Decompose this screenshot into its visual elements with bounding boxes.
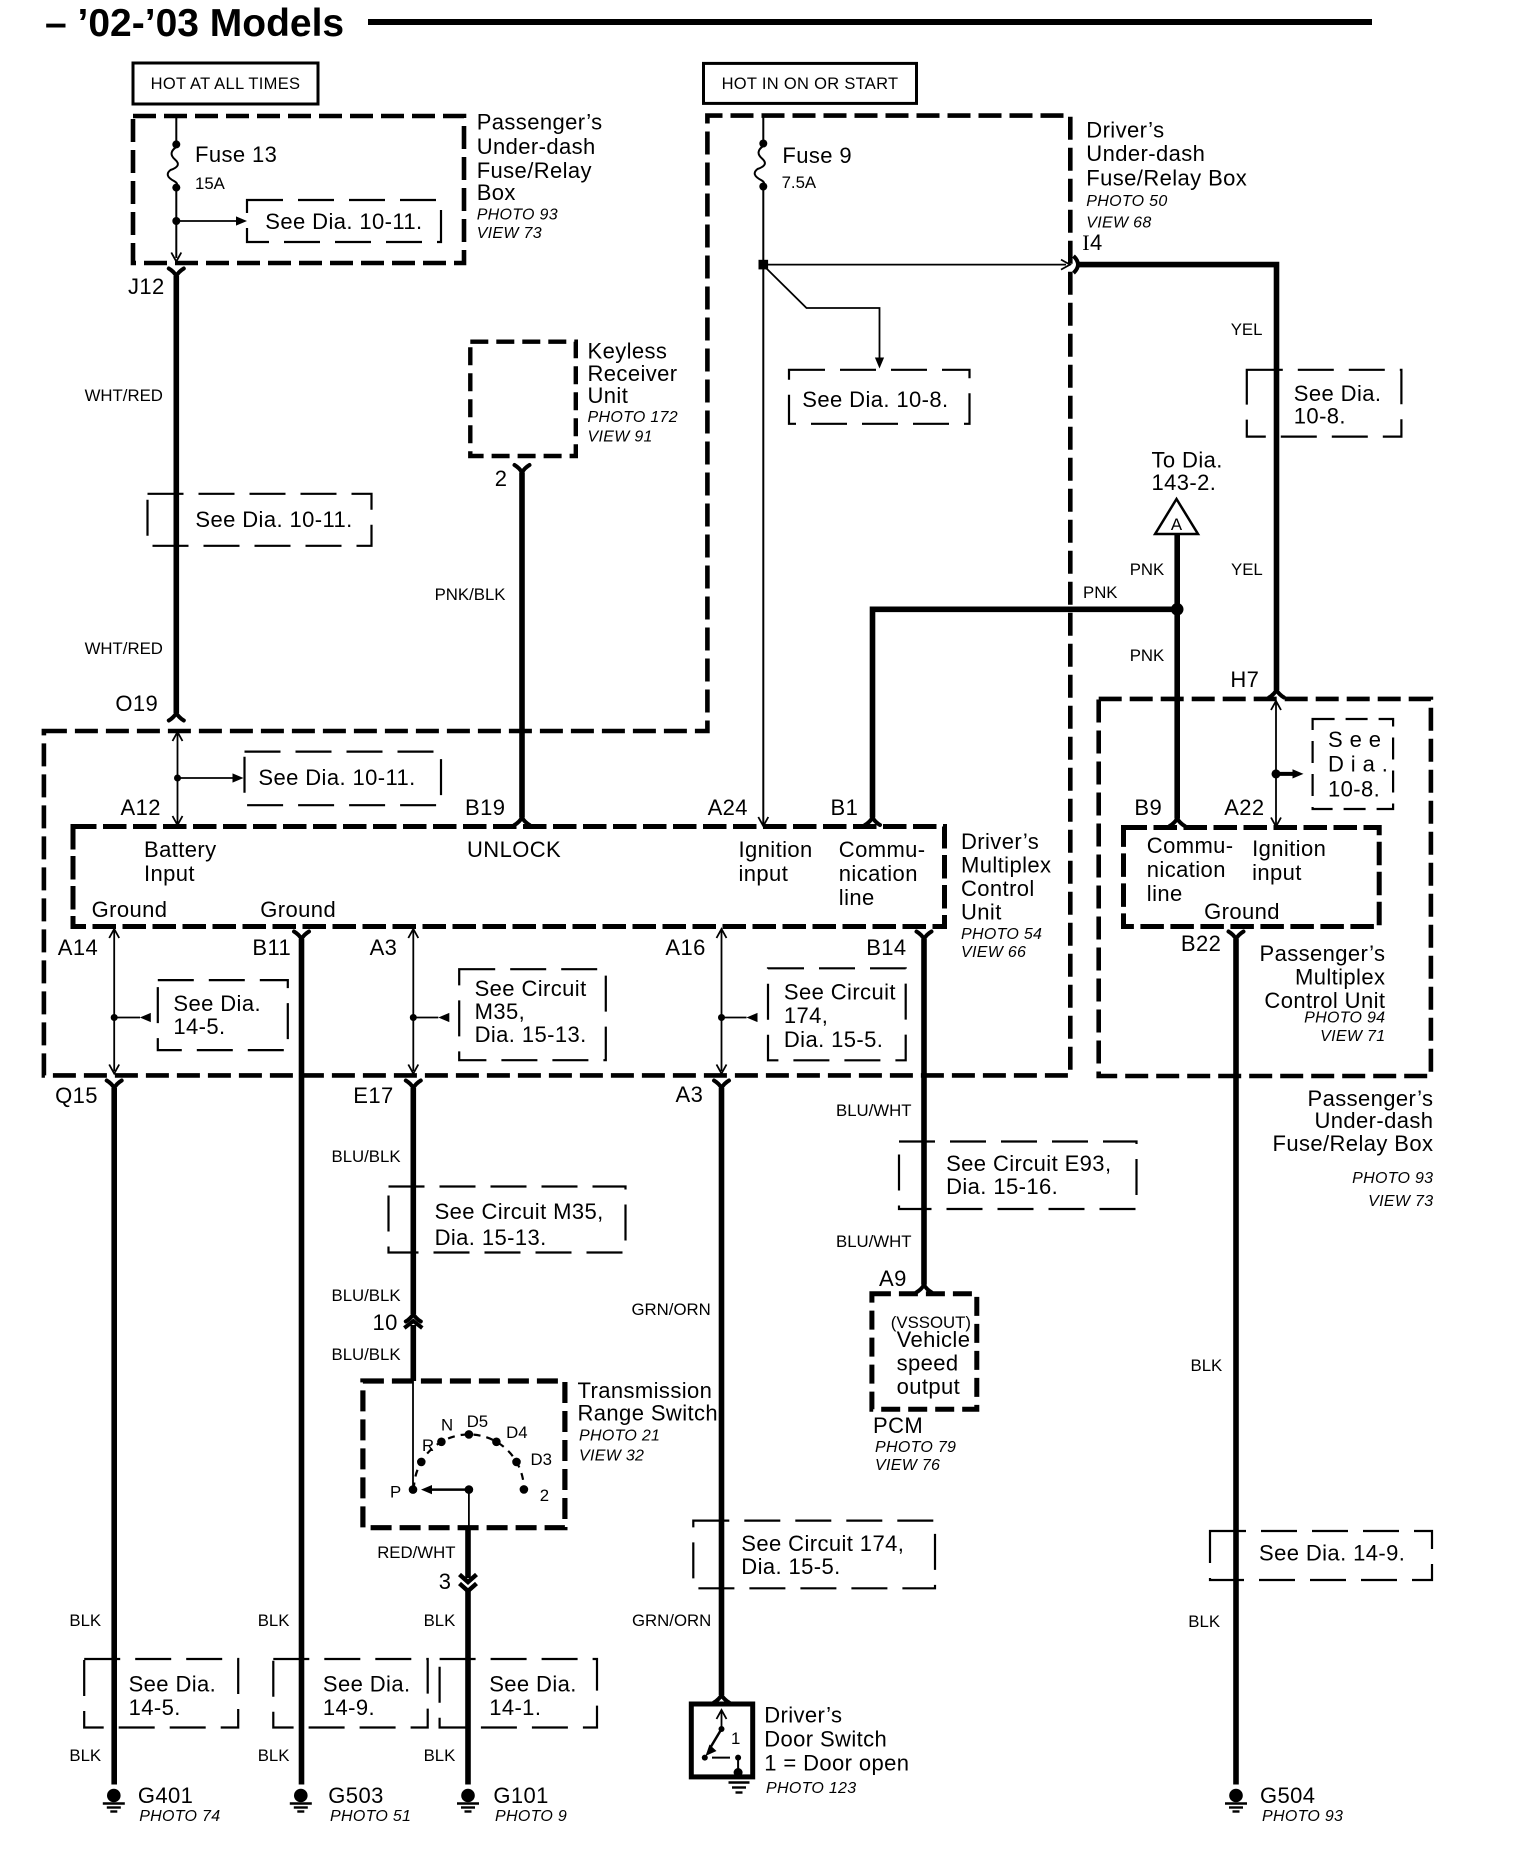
- svg-text:Commu-: Commu-: [839, 837, 926, 862]
- ref box See Dia. 10-11 (fuse 13): [247, 200, 441, 242]
- svg-text:O19: O19: [115, 691, 158, 716]
- arrow to See Dia. 10-11 ref: [176, 220, 236, 222]
- svg-text:PHOTO 123: PHOTO 123: [766, 1780, 856, 1797]
- svg-text:VIEW 71: VIEW 71: [1320, 1028, 1385, 1045]
- svg-text:VIEW 32: VIEW 32: [579, 1447, 644, 1464]
- double arrow A16: [721, 931, 723, 1071]
- switch contact 2: [520, 1485, 529, 1494]
- svg-text:VIEW 76: VIEW 76: [875, 1457, 940, 1474]
- svg-text:14-5.: 14-5.: [173, 1014, 225, 1039]
- wire fuse 13 to J12: [175, 191, 177, 258]
- ref box See Circuit M35 (E17): [389, 1187, 626, 1253]
- svg-text:G401: G401: [138, 1783, 193, 1808]
- svg-text:B22: B22: [1181, 931, 1221, 956]
- svg-text:nication: nication: [1147, 857, 1226, 882]
- ground G504: [1229, 1789, 1243, 1803]
- svg-text:Multiplex: Multiplex: [1295, 965, 1385, 990]
- door switch contact left: [702, 1755, 708, 1761]
- svg-text:Battery: Battery: [144, 837, 217, 862]
- fuse F13 top terminal: [172, 140, 180, 148]
- ground G401: [107, 1789, 121, 1803]
- svg-text:A24: A24: [708, 795, 748, 820]
- door switch arm: [710, 1729, 722, 1749]
- arrow to See Dia. 10-8 ref (H7): [1276, 772, 1293, 776]
- switch contact N: [437, 1438, 446, 1447]
- svg-text:Passenger’s: Passenger’s: [477, 110, 603, 135]
- fuse F13 bottom terminal: [172, 184, 180, 192]
- svg-text:BLK: BLK: [258, 1746, 290, 1765]
- svg-text:See Dia.: See Dia.: [323, 1672, 411, 1697]
- fuse F9 bottom terminal: [759, 183, 767, 191]
- connector 3 upper chevron: [460, 1575, 477, 1583]
- svg-text:S e e: S e e: [1328, 727, 1381, 752]
- door switch dashed link: [712, 1757, 730, 1759]
- svg-text:WHT/RED: WHT/RED: [85, 639, 163, 658]
- svg-text:R: R: [422, 1436, 434, 1455]
- driver door switch box: [691, 1704, 752, 1777]
- switch contact P: [409, 1485, 418, 1494]
- ref box See Dia. 10-11 (A12): [245, 752, 442, 806]
- svg-text:D4: D4: [506, 1423, 527, 1442]
- svg-text:B1: B1: [831, 795, 859, 820]
- svg-text:YEL: YEL: [1231, 320, 1263, 339]
- svg-text:N: N: [441, 1416, 453, 1435]
- svg-text:174,: 174,: [784, 1003, 828, 1028]
- svg-text:Keyless: Keyless: [588, 338, 668, 363]
- svg-text:Under-dash: Under-dash: [1314, 1108, 1433, 1133]
- svg-text:YEL: YEL: [1231, 560, 1263, 579]
- svg-text:PHOTO 94: PHOTO 94: [1304, 1010, 1385, 1027]
- wire arrow to I4: [768, 264, 1066, 266]
- connector J12: [169, 269, 184, 277]
- svg-text:A: A: [1171, 515, 1183, 534]
- svg-text:Dia. 15-5.: Dia. 15-5.: [784, 1027, 883, 1052]
- connector B19: [515, 818, 530, 826]
- svg-text:2: 2: [540, 1486, 549, 1505]
- svg-text:PHOTO 9: PHOTO 9: [495, 1808, 567, 1825]
- connector O19: [169, 713, 184, 721]
- door switch ground lead: [737, 1758, 739, 1772]
- label box HOT IN ON OR START: [704, 63, 917, 103]
- svg-text:line: line: [1147, 881, 1183, 906]
- svg-text:A22: A22: [1224, 795, 1264, 820]
- svg-text:Unit: Unit: [588, 383, 629, 408]
- ref box See Dia. 14-1 (G101): [440, 1659, 597, 1728]
- svg-text:Dia. 15-13.: Dia. 15-13.: [435, 1225, 547, 1250]
- svg-text:RED/WHT: RED/WHT: [377, 1543, 455, 1562]
- svg-text:BLK: BLK: [69, 1611, 101, 1630]
- svg-text:PHOTO 21: PHOTO 21: [579, 1427, 660, 1444]
- svg-text:D i a .: D i a .: [1328, 752, 1388, 777]
- svg-text:Dia. 15-13.: Dia. 15-13.: [475, 1022, 587, 1047]
- double arrow O19 to A12: [177, 734, 179, 823]
- ref box See Dia. 14-9 (B22): [1210, 1531, 1432, 1580]
- svg-text:10: 10: [373, 1310, 398, 1335]
- svg-text:A12: A12: [121, 795, 161, 820]
- junction on A3 arrow: [410, 1014, 417, 1021]
- ground G101: [461, 1789, 475, 1803]
- svg-text:BLK: BLK: [1188, 1612, 1220, 1631]
- svg-text:output: output: [897, 1374, 961, 1399]
- ref box See Dia. 14-9 (B11): [273, 1659, 427, 1728]
- svg-text:Multiplex: Multiplex: [961, 853, 1051, 878]
- wire PNK/BLK pin2 to B19: [519, 473, 525, 818]
- arrow from See Circuit 174 ref: [722, 1017, 747, 1019]
- double arrow A3: [412, 931, 414, 1071]
- door switch ground terminal: [734, 1768, 743, 1777]
- ref box See Dia. 14-5 (Q15): [84, 1659, 238, 1728]
- ground G503: [294, 1789, 308, 1803]
- ref box See Circuit M35 (A3): [459, 969, 606, 1060]
- connector A3 outer: [714, 1081, 729, 1089]
- wire fuse 9 to junction: [762, 190, 764, 265]
- wire PNK horizontal to B1: [873, 609, 1175, 817]
- svg-text:Dia. 15-16.: Dia. 15-16.: [946, 1174, 1058, 1199]
- svg-text:3: 3: [439, 1569, 452, 1594]
- switch contact R: [417, 1458, 426, 1467]
- ref box See Dia. 10-11 (mid wire): [148, 494, 372, 546]
- arrow to See Dia. 10-11 ref (A12): [178, 777, 234, 779]
- svg-text:Box: Box: [477, 180, 516, 205]
- door switch pivot dot: [719, 1726, 725, 1732]
- svg-text:Unit: Unit: [961, 900, 1002, 925]
- ref box See Dia. 10-8 (left): [789, 370, 970, 424]
- svg-text:input: input: [1252, 860, 1302, 885]
- svg-text:Ignition: Ignition: [1252, 836, 1326, 861]
- svg-text:Door Switch: Door Switch: [764, 1727, 887, 1752]
- connector A9: [917, 1285, 932, 1293]
- switch contact D5: [465, 1430, 474, 1439]
- svg-text:J12: J12: [128, 274, 165, 299]
- svg-text:Under-dash: Under-dash: [477, 134, 596, 159]
- svg-text:A3: A3: [676, 1082, 704, 1107]
- svg-text:WHT/RED: WHT/RED: [85, 386, 163, 405]
- ref box See Dia. 10-8 (H7): [1313, 719, 1394, 809]
- svg-text:See Circuit E93,: See Circuit E93,: [946, 1151, 1111, 1176]
- svg-text:Ground: Ground: [260, 897, 336, 922]
- svg-text:14-9.: 14-9.: [323, 1695, 375, 1720]
- svg-text:PHOTO 93: PHOTO 93: [1262, 1808, 1343, 1825]
- svg-text:Receiver: Receiver: [588, 361, 678, 386]
- svg-text:G504: G504: [1260, 1783, 1315, 1808]
- svg-text:Ground: Ground: [1204, 899, 1280, 924]
- ref box See Circuit 174 (door): [693, 1521, 935, 1589]
- arrow from See Dia. 14-5 ref: [114, 1017, 140, 1019]
- svg-text:Range Switch: Range Switch: [578, 1400, 719, 1425]
- switch rotor arm with arrow: [431, 1488, 469, 1491]
- svg-text:Under-dash: Under-dash: [1086, 141, 1205, 166]
- wire BLU/BLK E17 upper: [410, 1088, 416, 1314]
- svg-text:Driver’s: Driver’s: [1086, 118, 1164, 143]
- svg-text:BLK: BLK: [69, 1746, 101, 1765]
- svg-text:D3: D3: [531, 1450, 552, 1469]
- connector 10 upper fork: [406, 1314, 421, 1322]
- PCM vehicle speed output box: [872, 1294, 977, 1410]
- wire B11 to G503: [299, 939, 305, 1785]
- svg-text:PHOTO 93: PHOTO 93: [477, 206, 558, 223]
- svg-text:BLK: BLK: [424, 1611, 456, 1630]
- svg-text:BLU/WHT: BLU/WHT: [836, 1232, 912, 1251]
- wire BLK 3 to G101: [465, 1590, 471, 1785]
- junction PNK: [1171, 603, 1184, 616]
- svg-text:speed: speed: [897, 1351, 959, 1376]
- ref box See Dia. 10-8 (on YEL wire): [1247, 370, 1402, 437]
- svg-text:BLU/BLK: BLU/BLK: [332, 1345, 401, 1364]
- svg-text:UNLOCK: UNLOCK: [467, 837, 561, 862]
- connector B9: [1170, 819, 1185, 827]
- svg-text:1: 1: [731, 1729, 740, 1748]
- svg-text:GRN/ORN: GRN/ORN: [632, 1300, 711, 1319]
- connector B11: [294, 932, 309, 940]
- svg-text:See Dia.: See Dia.: [129, 1672, 217, 1697]
- svg-text:A3: A3: [370, 935, 398, 960]
- svg-text:Fuse 13: Fuse 13: [195, 142, 277, 167]
- svg-text:15A: 15A: [195, 174, 226, 193]
- wire GRN/ORN A3 to door switch: [719, 1088, 725, 1695]
- svg-text:14-5.: 14-5.: [129, 1695, 181, 1720]
- arrow into multiplex at A24: [758, 817, 768, 826]
- switch pivot: [465, 1485, 474, 1494]
- door switch contact right: [735, 1755, 741, 1761]
- svg-text:See Dia. 10-11.: See Dia. 10-11.: [258, 765, 415, 790]
- svg-text:PNK: PNK: [1130, 646, 1165, 665]
- svg-text:See Dia.: See Dia.: [489, 1672, 577, 1697]
- svg-text:B19: B19: [465, 795, 505, 820]
- switch feed wire inside box: [412, 1381, 414, 1490]
- connector E17: [406, 1081, 421, 1089]
- wire PNK triangle to B9: [1174, 534, 1180, 819]
- svg-text:Input: Input: [144, 861, 195, 886]
- svg-text:Control: Control: [961, 876, 1035, 901]
- wire fuse 9 feed: [762, 116, 764, 141]
- driver under-dash fuse/relay box + driver multiplex control unit outline: [44, 116, 1070, 1076]
- svg-text:line: line: [839, 885, 875, 910]
- double arrow H7 to A22: [1275, 703, 1277, 825]
- svg-text:VIEW 91: VIEW 91: [588, 428, 653, 445]
- switch contact D4: [492, 1438, 501, 1447]
- svg-text:Transmission: Transmission: [578, 1378, 713, 1403]
- connector B1: [865, 818, 880, 826]
- svg-text:BLU/BLK: BLU/BLK: [332, 1147, 401, 1166]
- wire RED/WHT below switch: [465, 1528, 471, 1578]
- wire fuse 9 junction to A24: [762, 265, 764, 824]
- svg-text:Driver’s: Driver’s: [961, 829, 1039, 854]
- svg-text:Dia. 15-5.: Dia. 15-5.: [741, 1554, 840, 1579]
- svg-text:P: P: [390, 1483, 401, 1502]
- svg-text:Ground: Ground: [92, 897, 168, 922]
- passenger multiplex control unit outer box: [1099, 699, 1431, 1076]
- arrow into box edge at J12: [171, 253, 181, 262]
- svg-text:See Dia. 14-9.: See Dia. 14-9.: [1259, 1541, 1405, 1566]
- svg-text:See Dia.: See Dia.: [1294, 381, 1382, 406]
- junction square fuse 9: [759, 260, 769, 270]
- svg-text:See Circuit: See Circuit: [784, 979, 896, 1004]
- svg-text:Commu-: Commu-: [1147, 833, 1234, 858]
- svg-text:See Circuit 174,: See Circuit 174,: [741, 1531, 904, 1556]
- svg-text:14-1.: 14-1.: [489, 1695, 541, 1720]
- svg-text:PHOTO 54: PHOTO 54: [961, 926, 1042, 943]
- passenger under-dash fuse/relay box: [133, 116, 464, 263]
- svg-text:B14: B14: [866, 935, 906, 960]
- svg-text:VIEW 66: VIEW 66: [961, 944, 1026, 961]
- junction on H7 arrow: [1272, 769, 1281, 778]
- door switch arrow: [721, 1712, 723, 1729]
- connector B22: [1229, 932, 1244, 940]
- svg-text:VIEW 73: VIEW 73: [1368, 1193, 1433, 1210]
- svg-text:PHOTO 79: PHOTO 79: [875, 1439, 956, 1456]
- junction on A14 arrow: [111, 1014, 118, 1021]
- svg-text:PHOTO 51: PHOTO 51: [330, 1808, 411, 1825]
- svg-text:– ’02-’03 Models: – ’02-’03 Models: [45, 2, 344, 45]
- svg-text:BLK: BLK: [424, 1746, 456, 1765]
- svg-text:I4: I4: [1082, 230, 1102, 255]
- passenger multiplex control unit inner box: [1124, 828, 1380, 927]
- svg-text:G101: G101: [493, 1783, 548, 1808]
- svg-text:Q15: Q15: [55, 1083, 98, 1108]
- svg-text:PNK: PNK: [1083, 583, 1118, 602]
- svg-text:PCM: PCM: [873, 1413, 923, 1438]
- arrow from See Circuit M35 ref: [413, 1017, 438, 1019]
- svg-text:A16: A16: [665, 935, 705, 960]
- transmission range switch box: [363, 1381, 565, 1528]
- svg-text:BLK: BLK: [1191, 1356, 1223, 1375]
- svg-text:E17: E17: [353, 1083, 393, 1108]
- svg-text:See Circuit M35,: See Circuit M35,: [435, 1199, 604, 1224]
- svg-text:Fuse 9: Fuse 9: [782, 143, 852, 168]
- svg-text:D5: D5: [467, 1412, 488, 1431]
- svg-text:HOT AT ALL TIMES: HOT AT ALL TIMES: [151, 75, 301, 93]
- wire fuse 13 feed: [175, 116, 177, 142]
- connector H7: [1269, 690, 1284, 698]
- svg-text:PHOTO 172: PHOTO 172: [588, 409, 678, 426]
- connector 3 lower fork: [460, 1584, 477, 1592]
- svg-text:Fuse/Relay Box: Fuse/Relay Box: [1086, 165, 1247, 190]
- svg-text:See Dia.: See Dia.: [173, 991, 261, 1016]
- svg-text:PNK: PNK: [1130, 560, 1165, 579]
- svg-text:BLU/WHT: BLU/WHT: [836, 1101, 912, 1120]
- connector 10 lower chevron: [404, 1321, 422, 1328]
- connector door switch pin: [714, 1695, 729, 1703]
- wire YEL I4 to H7: [1079, 265, 1277, 690]
- connector B14: [917, 932, 932, 940]
- svg-text:143-2.: 143-2.: [1152, 470, 1217, 495]
- svg-text:B9: B9: [1134, 795, 1162, 820]
- fuse F13 element: [168, 147, 178, 186]
- keyless receiver unit box: [470, 342, 576, 456]
- double arrow A14: [113, 931, 115, 1071]
- svg-text:A9: A9: [879, 1266, 907, 1291]
- svg-text:BLU/BLK: BLU/BLK: [332, 1286, 401, 1305]
- svg-text:input: input: [739, 861, 789, 886]
- svg-text:HOT IN ON OR START: HOT IN ON OR START: [722, 75, 899, 93]
- svg-text:See Dia. 10-11.: See Dia. 10-11.: [265, 209, 422, 234]
- ref box See Circuit 174 (A16): [768, 968, 906, 1060]
- connector I4 socket: [1074, 256, 1079, 273]
- svg-text:G503: G503: [328, 1783, 383, 1808]
- svg-text:B11: B11: [252, 935, 291, 960]
- diagonal branch to See Dia. 10-8: [765, 267, 880, 359]
- svg-text:A14: A14: [58, 935, 98, 960]
- svg-text:VIEW 73: VIEW 73: [477, 225, 542, 242]
- svg-text:GRN/ORN: GRN/ORN: [632, 1611, 711, 1630]
- wire BLK B22 to G504: [1233, 939, 1239, 1785]
- svg-text:PNK/BLK: PNK/BLK: [435, 585, 506, 604]
- junction on fuse 13 wire: [172, 217, 180, 225]
- wire BLU/BLK 10 to switch: [410, 1325, 416, 1381]
- door switch ground symbol: [729, 1781, 750, 1783]
- fuse F9 element: [755, 146, 765, 185]
- ref box See Dia. 14-5 (A14): [158, 980, 288, 1050]
- svg-text:1 = Door open: 1 = Door open: [764, 1751, 909, 1776]
- svg-text:M35,: M35,: [475, 999, 526, 1024]
- switch contact arc: [414, 1434, 524, 1489]
- connector Q15: [107, 1081, 122, 1089]
- svg-text:See Circuit: See Circuit: [475, 976, 587, 1001]
- svg-text:To Dia.: To Dia.: [1152, 448, 1223, 473]
- svg-text:Passenger’s: Passenger’s: [1260, 941, 1386, 966]
- wire WHT/RED J12 to O19: [174, 276, 180, 713]
- svg-text:7.5A: 7.5A: [782, 173, 817, 192]
- svg-text:BLK: BLK: [258, 1611, 290, 1630]
- driver multiplex control unit inner box: [73, 827, 945, 927]
- svg-text:See Dia. 10-8.: See Dia. 10-8.: [802, 387, 948, 412]
- svg-text:H7: H7: [1230, 667, 1259, 692]
- svg-text:Fuse/Relay Box: Fuse/Relay Box: [1273, 1131, 1434, 1156]
- svg-text:PHOTO 74: PHOTO 74: [139, 1808, 220, 1825]
- svg-text:10-8.: 10-8.: [1328, 777, 1380, 802]
- off-page connector triangle A: [1155, 499, 1198, 534]
- svg-text:2: 2: [495, 466, 508, 491]
- svg-text:See Dia. 10-11.: See Dia. 10-11.: [195, 507, 352, 532]
- svg-text:nication: nication: [839, 861, 918, 886]
- wire BLU/WHT B14 to A9: [921, 939, 927, 1285]
- fuse F9 top terminal: [759, 140, 767, 148]
- junction on A16 arrow: [718, 1014, 725, 1021]
- ref box See Circuit E93: [899, 1142, 1137, 1210]
- connector keyless pin 2: [515, 465, 530, 473]
- label box HOT AT ALL TIMES: [133, 63, 318, 104]
- svg-text:PHOTO 50: PHOTO 50: [1086, 193, 1167, 210]
- switch output wire inside box: [468, 1493, 470, 1528]
- svg-text:Vehicle: Vehicle: [897, 1327, 971, 1352]
- svg-text:Driver’s: Driver’s: [764, 1703, 842, 1728]
- wire BLK Q15 to G401: [111, 1088, 117, 1785]
- svg-text:10-8.: 10-8.: [1294, 404, 1346, 429]
- svg-text:PHOTO 93: PHOTO 93: [1352, 1170, 1433, 1187]
- switch contact D3: [512, 1458, 521, 1467]
- svg-text:Ignition: Ignition: [739, 837, 813, 862]
- title rule: [368, 19, 1372, 25]
- junction on A12 arrow: [174, 775, 181, 782]
